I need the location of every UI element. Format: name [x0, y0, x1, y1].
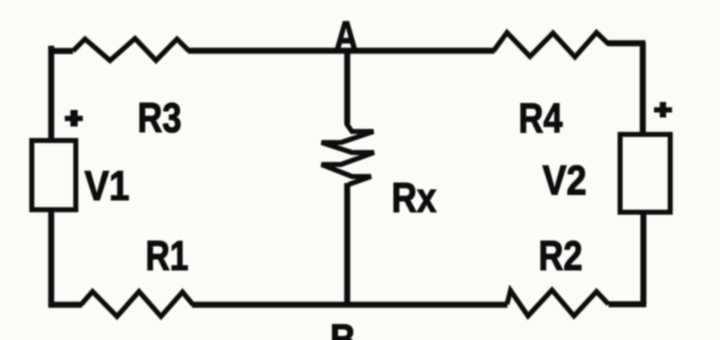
- svg-text:R2: R2: [539, 232, 583, 279]
- resistor R3: [73, 39, 189, 61]
- svg-text:R4: R4: [519, 94, 564, 141]
- svg-text:Rx: Rx: [392, 174, 438, 221]
- wire top-left horizontal stub: [49, 48, 74, 54]
- wire center vertical bottom (Rx down to node B): [344, 183, 350, 307]
- svg-text:A: A: [334, 13, 358, 60]
- resistor Rx (vertical zigzag): [322, 112, 375, 185]
- plus sign of V1: [65, 110, 83, 127]
- resistor R1: [81, 292, 193, 317]
- svg-text:R1: R1: [146, 232, 189, 279]
- wire right vertical top (corner to V2 top): [640, 43, 646, 136]
- wire left vertical top (from top-left corner to V1 top): [48, 46, 54, 141]
- resistor R4: [494, 33, 610, 58]
- wire bottom-right horizontal stub: [609, 301, 647, 307]
- svg-text:R3: R3: [138, 94, 182, 141]
- svg-text:V1: V1: [85, 162, 130, 209]
- wire bottom-left horizontal stub: [49, 302, 83, 308]
- svg-text:B: B: [330, 316, 356, 340]
- wire right vertical bottom (V2 bottom to bottom wire): [640, 213, 646, 305]
- voltage source V1 box: [32, 141, 76, 210]
- svg-text:V2: V2: [543, 156, 587, 203]
- plus sign of V2: [654, 102, 672, 118]
- wire center vertical top (node A down to Rx): [344, 48, 350, 124]
- wire bottom middle (R1 to R2 through node B): [192, 302, 508, 308]
- voltage source V2 box: [620, 134, 670, 212]
- resistor R2: [507, 290, 609, 316]
- wire top middle (R3 to R4 through node A): [188, 48, 495, 54]
- wire top-right horizontal stub: [608, 40, 646, 46]
- wire left vertical bottom (V1 bottom to bottom wire): [48, 210, 54, 308]
